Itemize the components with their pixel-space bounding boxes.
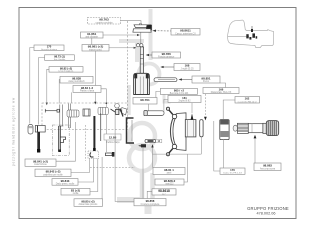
dashed horizontal segment lower — [90, 167, 135, 169]
watermark ghost text — [117, 9, 169, 214]
label box 98.863 Ass.cmp — [254, 163, 281, 171]
stair label box 98.84 Piattino — [73, 86, 101, 93]
wire box 170b left up — [214, 121, 220, 171]
svg-text:98.84 1-2: 98.84 1-2 — [81, 86, 94, 90]
vertical rod 1 in enclosure — [59, 105, 64, 127]
wire box 162 down to bushing — [223, 100, 235, 120]
small bolt capsule left — [28, 125, 33, 135]
bolt2 small with arrow — [138, 144, 146, 147]
svg-text:83 (+2): 83 (+2) — [71, 189, 80, 193]
svg-text:162: 162 — [245, 97, 250, 101]
clutch bell part — [137, 44, 144, 74]
circlip ring part — [115, 104, 121, 113]
label box molla — [61, 188, 90, 195]
dashed mini box with clip — [88, 151, 99, 159]
mini label box near pin — [156, 139, 162, 143]
wire shaft down to box with up arrow — [254, 138, 256, 164]
label box 12.88 Retro — [104, 134, 121, 144]
spring part 2 — [98, 107, 108, 114]
svg-text:98.8618: 98.8618 — [158, 189, 170, 193]
small screws above C-channel — [111, 109, 124, 117]
svg-text:Distanziale, BLA.XX: Distanziale, BLA.XX — [211, 91, 232, 94]
label box 170b Dado — [220, 168, 245, 175]
label box 162 Cuscinetto — [235, 97, 260, 104]
pin horizontal mid — [145, 139, 156, 142]
wire bolt2 down to box crociera — [142, 148, 144, 199]
wire box 98.861b left down — [147, 191, 152, 198]
svg-text:Boccola di OL.MA: Boccola di OL.MA — [170, 92, 189, 95]
svg-text:98.786: 98.786 — [162, 52, 172, 56]
label box 161 anello — [168, 96, 201, 103]
svg-text:NL*: NL* — [162, 194, 166, 196]
label box 98.786 Fascia ganasce — [152, 52, 181, 59]
svg-text:pezzogtil mandibole agricole: pezzogtil mandibole agricole ww — [12, 97, 16, 166]
page border frame — [19, 8, 296, 219]
dashed vertical right of dash-dot box — [85, 125, 87, 161]
label box 98.842 padellina — [35, 169, 71, 176]
svg-text:mozzo cond.: mozzo cond. — [89, 49, 102, 51]
svg-text:Dado press. molle: Dado press. molle — [56, 182, 75, 185]
stair label box 98.83 — [60, 76, 93, 83]
wire box crociera left — [115, 110, 134, 202]
wire box 98.838 — [58, 80, 61, 104]
vehicle clutch-position marks — [246, 29, 257, 40]
wire box 170 — [30, 48, 34, 124]
wire box 98.85 top right — [101, 157, 103, 199]
svg-text:padellina per molle: padellina per molle — [43, 173, 63, 176]
svg-text:98.858: 98.858 — [146, 199, 155, 203]
svg-text:Perno: Perno — [203, 80, 210, 83]
dashed wire down from top line — [126, 21, 128, 103]
svg-text:Guscello frizione: Guscello frizione — [41, 48, 58, 51]
svg-text:Crociera completa: Crociera completa — [141, 203, 160, 206]
svg-text:166: 166 — [219, 88, 224, 92]
cage part — [83, 109, 90, 116]
svg-text:478.002.06: 478.002.06 — [256, 212, 275, 216]
svg-text:98.851: 98.851 — [201, 76, 211, 80]
svg-text:98.828-2: 98.828-2 — [164, 179, 176, 183]
label box 98.81 parti — [153, 168, 185, 175]
vertical dark rod lower left — [94, 114, 100, 153]
vehicle silhouette — [228, 20, 274, 47]
stair label box 170 Guscello — [34, 45, 64, 51]
svg-text:GRUPPO FRIZIONE: GRUPPO FRIZIONE — [247, 206, 289, 211]
svg-text:98.843: 98.843 — [61, 179, 70, 183]
label box 98.761 (hub) — [133, 98, 157, 105]
dashed wire with down arrow — [204, 94, 206, 117]
bolt+washer part left — [35, 126, 45, 153]
wire box 98.82 with down arrow — [47, 69, 49, 103]
wire bushing down to box 170b — [222, 140, 224, 168]
arrow wire from box 98.786 to bell — [147, 54, 152, 56]
svg-text:Asta premidisch: Asta premidisch — [68, 80, 85, 83]
small pin part in enclosure — [45, 109, 59, 113]
wire box 98.82b right up — [184, 154, 188, 182]
svg-text:Fascia ganasce: Fascia ganasce — [158, 57, 175, 59]
wire box 865 left — [156, 91, 161, 97]
svg-text:Febbre Balju: Febbre Balju — [106, 141, 120, 144]
wire box 98.861 to bell cap — [109, 47, 135, 49]
arm hub rect — [185, 120, 196, 137]
label box 98.843 Dado — [52, 179, 78, 186]
label box 168 J.mgN — [174, 64, 200, 71]
wire box 98.861 down with arrow — [94, 51, 96, 103]
wire box 98.73 — [39, 58, 45, 125]
svg-text:Snc Gualdo: Snc Gualdo — [54, 59, 66, 61]
svg-text:98.841 (+2): 98.841 (+2) — [33, 159, 48, 163]
label box 98.851 P.e — [192, 76, 220, 83]
dashed arrow from box C to pulley — [155, 30, 172, 32]
label box 166 Distanziale — [203, 88, 239, 95]
arm bottom bolt cluster — [166, 144, 176, 155]
label box 91.861 — [81, 32, 104, 39]
svg-text:98.85 (+2): 98.85 (+2) — [81, 199, 94, 203]
svg-text:865 / +2: 865 / +2 — [174, 88, 185, 92]
svg-text:98.861 (+2): 98.861 (+2) — [88, 45, 103, 49]
wire box 91.861 to pulley — [103, 34, 138, 36]
arm top bolt cluster — [166, 107, 176, 119]
pawl part — [122, 108, 127, 116]
arrow wire from box 168 leftwards — [162, 66, 175, 68]
wire box 161 left down — [164, 99, 168, 114]
spring part 1 — [67, 110, 79, 117]
C-channel part — [127, 118, 135, 143]
svg-text:distanziale piccolo: distanziale piccolo — [79, 203, 98, 206]
label box 98.841 Asta frizione — [25, 159, 56, 166]
clutch hub cup part — [134, 73, 150, 94]
svg-text:Ass.cmp.razza: Ass.cmp.razza — [260, 167, 276, 170]
vertical rod 2 in enclosure — [68, 104, 70, 129]
stair label box 98.73 — [45, 55, 75, 61]
svg-text:Casco_anteriore.CX: Casco_anteriore.CX — [175, 32, 196, 35]
wire box 98.841 right up — [56, 122, 75, 161]
svg-text:12.88: 12.88 — [109, 135, 117, 139]
svg-text:Asta frizione: Asta frizione — [34, 163, 47, 166]
svg-text:170: 170 — [230, 168, 235, 172]
wire horizontal junction line — [153, 153, 202, 155]
clevis pin part — [200, 120, 203, 137]
clutch release arm (crescent) — [170, 113, 186, 151]
svg-text:cuscinetto RB.14.Q: cuscinetto RB.14.Q — [238, 100, 257, 103]
svg-text:161: 161 — [182, 96, 187, 100]
label box C 98.8611 — [171, 29, 200, 36]
small bolt part — [106, 152, 115, 157]
wire box 98.84 right leg long — [101, 89, 106, 152]
label box 865 Bootle — [160, 88, 197, 95]
svg-text:98.8611: 98.8611 — [180, 29, 191, 33]
label box 98.861 — [82, 45, 109, 52]
svg-text:Piattino d'asta: Piattino d'asta — [80, 90, 95, 93]
svg-text:168: 168 — [185, 64, 190, 68]
label box 98.82b — [155, 179, 184, 186]
wire box molla right up — [90, 159, 98, 192]
wire box 98.84 left leg — [71, 92, 73, 103]
bushing part — [220, 120, 229, 140]
svg-text:Leva di aggiust.: Leva di aggiust. — [58, 70, 74, 73]
dash-dot box with rod — [52, 125, 69, 156]
svg-text:98.761: 98.761 — [140, 98, 150, 102]
stair label box 98.82 — [49, 66, 83, 72]
svg-text:parti: parti — [167, 172, 172, 175]
wire box166 to box20 — [220, 83, 226, 88]
push rod part — [154, 78, 177, 82]
input shaft part — [233, 121, 279, 136]
svg-text:98.842 (+2): 98.842 (+2) — [46, 170, 61, 174]
wire box 98.842 right up — [71, 159, 89, 173]
wire from box B to pulley — [121, 21, 142, 23]
up arrow above arm hub — [191, 114, 194, 120]
svg-text:Dado, SC.PR.1.4.8: Dado, SC.PR.1.4.8 — [223, 173, 242, 175]
svg-text:vam222: vam222 — [165, 184, 174, 186]
svg-text:molla: molla — [73, 193, 79, 195]
label box crociera — [134, 199, 166, 206]
label box B 98.763 (dashed) — [88, 18, 121, 25]
svg-text:J.mgN.05.25: J.mgN.05.25 — [180, 69, 194, 71]
wire box 91.861 to box 98.861 — [91, 38, 93, 45]
arrow wire from box 98.851 to rod — [180, 79, 192, 81]
wire hub box down to box crociera — [148, 104, 150, 111]
svg-text:2nglnd.8.82: 2nglnd.8.82 — [178, 101, 191, 103]
label box 98.85 distanziale — [74, 199, 103, 207]
svg-text:98.863: 98.863 — [263, 163, 272, 167]
wire box 98.843 right up — [78, 159, 94, 183]
svg-text:98.838: 98.838 — [72, 77, 81, 81]
svg-text:98.81 1: 98.81 1 — [164, 168, 174, 172]
svg-text:coppia condotta: coppia condotta — [96, 22, 114, 25]
roller pin horizontal top — [144, 111, 164, 116]
svg-text:91.861: 91.861 — [87, 32, 97, 36]
label box 98.861b bold — [152, 189, 176, 196]
dashed enclosure A — [42, 103, 128, 130]
wire pin down to box 98.81 with up arrow — [152, 147, 154, 168]
driven pulley (spool) part — [133, 23, 152, 43]
